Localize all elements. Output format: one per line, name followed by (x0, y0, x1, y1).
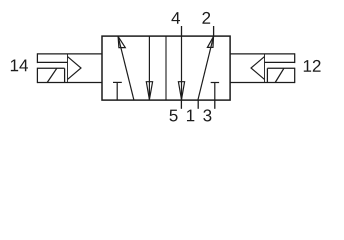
override box left edge (266, 68, 268, 82)
right pilot actuator 12 (230, 53, 295, 83)
pilot port cap bar (294, 53, 296, 63)
pilot channel line (265, 61, 295, 63)
port 5 connection line (180, 100, 182, 109)
pilot bottom line (230, 82, 295, 84)
wire: position divider line (165, 36, 167, 100)
port 4 connection line (181, 26, 183, 36)
left pilot actuator 14 (37, 53, 102, 83)
port 3 connection line (214, 100, 216, 109)
left square: blocked port 5' T symbol (113, 82, 122, 100)
override slash (275, 68, 284, 82)
pilot triangle (pneumatic) (251, 57, 265, 80)
left square: flow arrow 2->3 (vertical, head at bottom) (146, 36, 152, 99)
override box right edge (64, 68, 66, 82)
override box top line (37, 67, 64, 69)
valve body V1 outline (two position squares) (102, 36, 230, 100)
override box left edge (36, 68, 38, 83)
right square: flow arrow 4->5 (vertical, head at bottom) (178, 36, 184, 99)
label port 5 (170, 110, 178, 122)
right square: flow arrow 1->2 (diagonal, head at top) (198, 37, 214, 101)
label port 14 (11, 60, 28, 72)
5/2-way pneumatic valve schematic, double pilot 14/12 (0, 0, 344, 184)
override box right edge (294, 68, 296, 83)
pilot port cap bar (36, 53, 38, 63)
pilot channel line (37, 61, 67, 63)
label port 12 (304, 60, 321, 72)
override box top line (267, 67, 294, 69)
port 1 connection line (197, 100, 199, 109)
pilot triangle (pneumatic) (68, 57, 82, 80)
pilot top line (230, 53, 295, 55)
label port 1 (187, 110, 194, 122)
port 2 connection line (213, 26, 215, 36)
left square: flow arrow 1->4 (diagonal, head at top) (118, 37, 134, 101)
pilot section divider (67, 54, 69, 83)
label port 4 (171, 12, 180, 24)
right square: blocked port 3 T symbol (211, 83, 219, 101)
label port 2 (202, 12, 210, 24)
label port 3 (203, 109, 211, 121)
pilot bottom line (37, 82, 102, 84)
pilot section divider (264, 54, 266, 83)
override slash (47, 68, 57, 82)
pilot top line (37, 53, 102, 55)
